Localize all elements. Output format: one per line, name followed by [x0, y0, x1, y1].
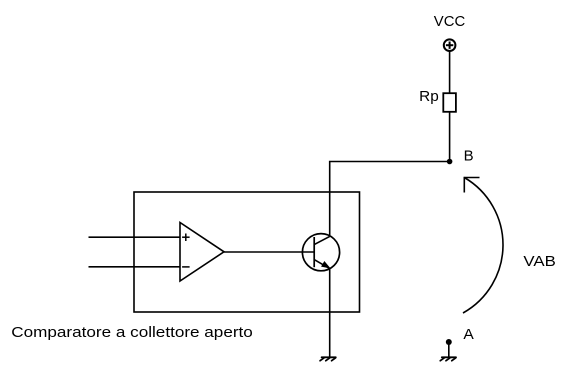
op-amp U1: [180, 223, 224, 282]
svg-text:VAB: VAB: [523, 253, 555, 270]
transistor emitter arrow: [322, 262, 330, 268]
svg-text:B: B: [464, 148, 474, 165]
transistor emitter stroke: [314, 260, 330, 269]
wire node A to ground: [448, 342, 450, 357]
input wire +: [89, 236, 181, 238]
svg-text:VCC: VCC: [434, 13, 466, 30]
input wire -: [89, 266, 181, 268]
svg-text:Comparatore a collettore apert: Comparatore a collettore aperto: [11, 324, 253, 341]
node B: [447, 159, 453, 165]
transistor collector stroke: [314, 236, 330, 244]
VAB arrowhead: [464, 178, 479, 193]
emitter wire down to ground: [329, 269, 331, 358]
node A: [446, 339, 452, 345]
svg-text:Rp: Rp: [419, 88, 439, 105]
wire op-amp output to transistor base: [224, 251, 314, 253]
ground (transistor emitter): [320, 357, 336, 360]
resistor Rp: [443, 93, 456, 112]
wire node B to collector (horizontal then down): [330, 162, 450, 237]
svg-text:A: A: [463, 326, 473, 343]
transistor base bar: [313, 237, 315, 267]
VAB arc arrow: [463, 178, 503, 314]
VCC supply terminal (circle with plus): [444, 39, 456, 51]
wire resistor to node B: [449, 112, 451, 162]
op-amp plus input mark: [182, 234, 190, 242]
wire VCC to resistor: [449, 52, 451, 94]
op-amp minus input mark: [182, 266, 190, 268]
transistor Q1 circle: [302, 234, 339, 271]
comparator box: [134, 192, 360, 312]
ground (node A): [440, 357, 456, 360]
